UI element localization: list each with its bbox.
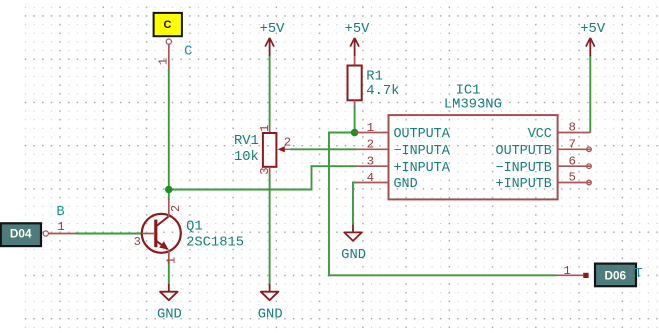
svg-text:C: C [164, 19, 172, 31]
svg-text:3: 3 [367, 155, 374, 169]
svg-text:2SC1815: 2SC1815 [186, 236, 244, 251]
svg-text:1: 1 [156, 58, 170, 65]
svg-text:+5V: +5V [580, 22, 606, 37]
svg-text:D06: D06 [604, 269, 626, 283]
svg-text:RV1: RV1 [234, 134, 259, 149]
svg-text:1: 1 [57, 220, 64, 234]
svg-text:5: 5 [568, 171, 575, 185]
svg-text:GND: GND [157, 308, 182, 323]
svg-text:+INPUTA: +INPUTA [394, 161, 451, 176]
svg-text:2: 2 [284, 136, 291, 150]
svg-text:3: 3 [258, 167, 272, 174]
svg-text:2: 2 [169, 205, 183, 212]
svg-text:D04: D04 [10, 227, 32, 241]
svg-text:Q1: Q1 [186, 219, 203, 234]
svg-text:B: B [56, 205, 64, 220]
svg-text:OUTPUTB: OUTPUTB [496, 144, 552, 159]
svg-text:10k: 10k [234, 149, 259, 165]
svg-text:−INPUTB: −INPUTB [496, 161, 552, 176]
svg-text:2: 2 [367, 138, 374, 152]
svg-text:1: 1 [563, 264, 570, 278]
svg-text:OUTPUTA: OUTPUTA [394, 127, 451, 142]
svg-text:1: 1 [164, 257, 178, 264]
svg-text:1: 1 [367, 121, 374, 135]
svg-text:GND: GND [341, 248, 366, 263]
svg-text:−INPUTA: −INPUTA [394, 144, 451, 159]
svg-text:3: 3 [134, 235, 141, 249]
svg-text:8: 8 [568, 121, 575, 135]
svg-text:6: 6 [568, 154, 575, 168]
svg-text:C: C [184, 45, 192, 60]
svg-text:+INPUTB: +INPUTB [496, 177, 552, 192]
svg-text:+5V: +5V [260, 22, 286, 37]
svg-text:7: 7 [568, 138, 575, 152]
svg-text:4: 4 [367, 171, 374, 185]
svg-text:+5V: +5V [345, 22, 371, 37]
svg-text:R1: R1 [366, 70, 383, 85]
svg-text:VCC: VCC [528, 127, 552, 142]
svg-text:GND: GND [394, 177, 418, 192]
svg-text:T: T [634, 267, 642, 282]
svg-text:GND: GND [258, 308, 283, 323]
svg-text:1: 1 [258, 125, 272, 132]
svg-text:LM393NG: LM393NG [444, 97, 502, 112]
svg-text:4.7k: 4.7k [366, 83, 399, 99]
